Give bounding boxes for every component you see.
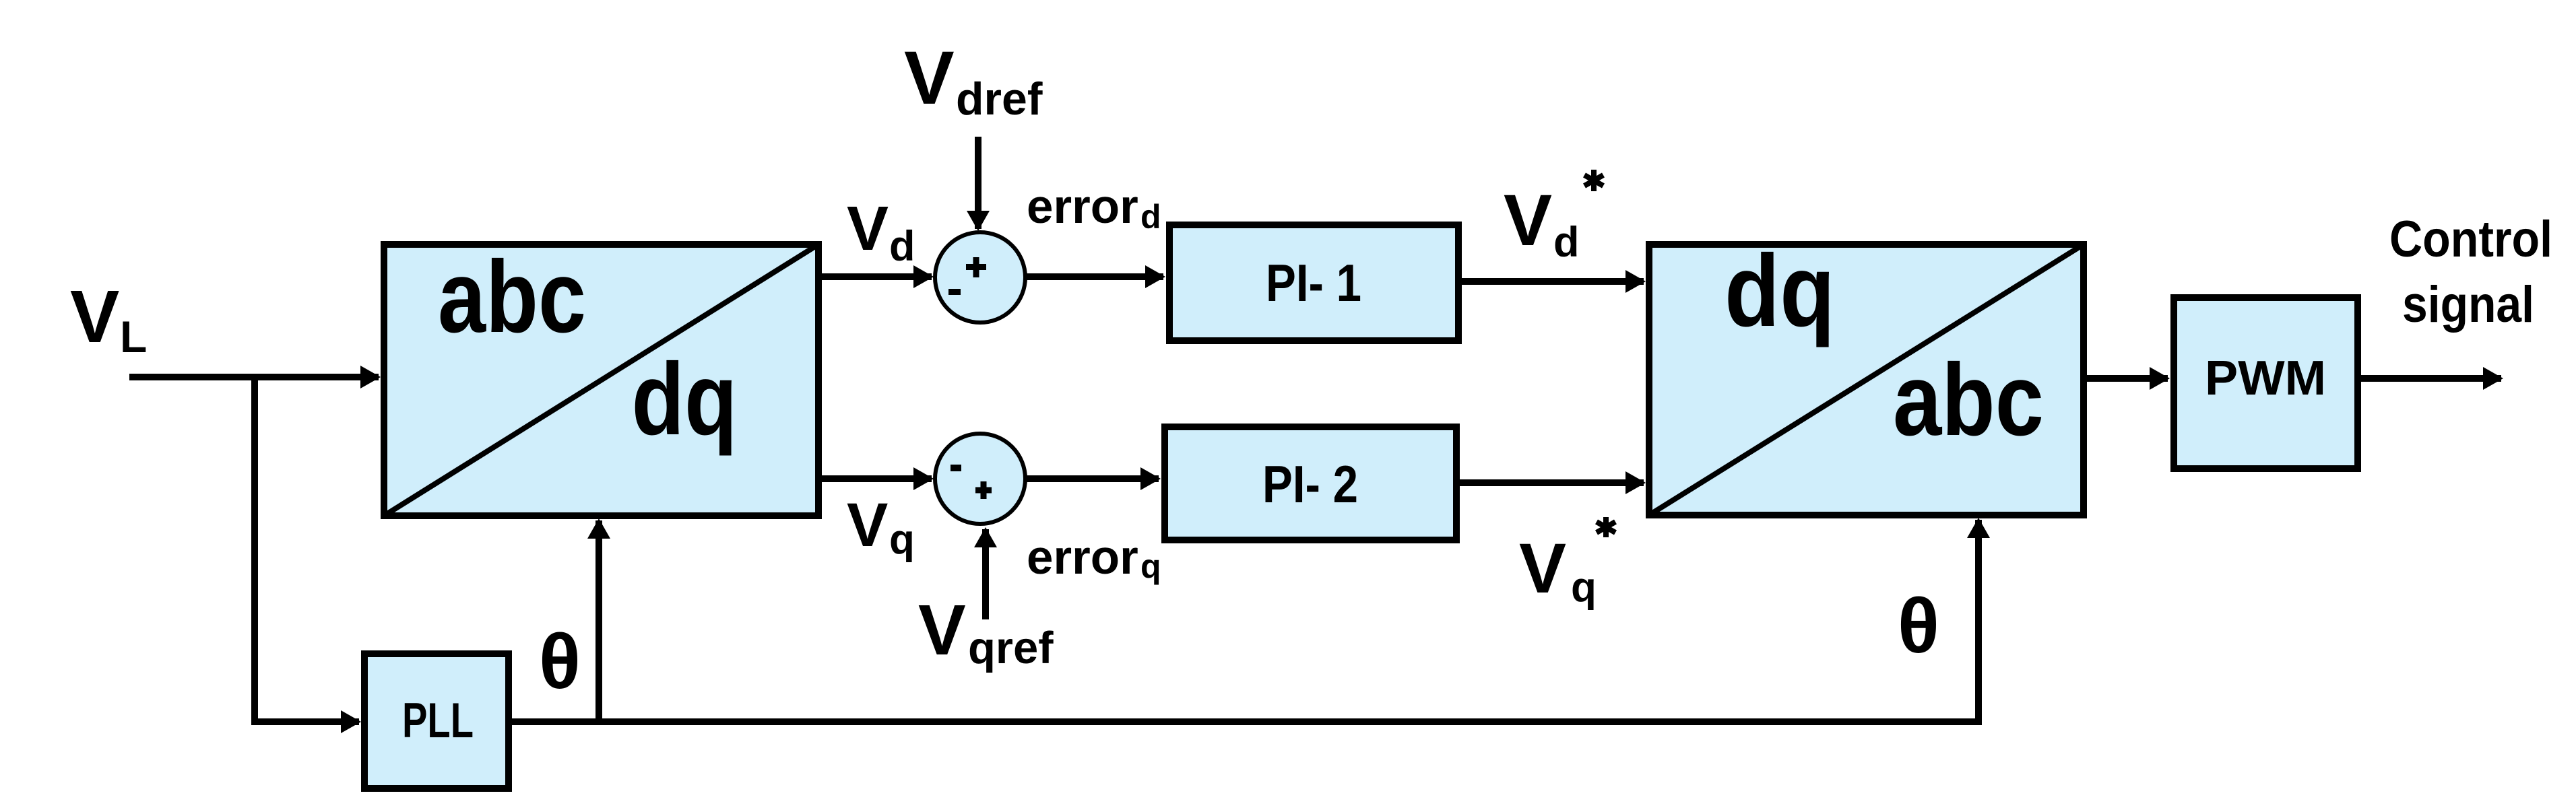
svg-text:V: V: [847, 491, 888, 560]
label Vq star: [1519, 517, 1615, 611]
svg-text:abc: abc: [438, 240, 586, 354]
svg-text:dref: dref: [956, 73, 1043, 125]
svg-text:V: V: [904, 36, 955, 120]
node A branch to PLL: [255, 377, 359, 722]
wire Vd to summer 1: [822, 273, 932, 280]
summer 2: [935, 434, 1025, 524]
wire theta up to abc-dq block: [595, 520, 602, 722]
svg-text:PI- 1: PI- 1: [1266, 253, 1361, 312]
wire Vqref up to summer 2: [982, 529, 989, 619]
wire errord to PI-1: [1025, 273, 1163, 280]
svg-text:error: error: [1027, 180, 1138, 234]
label Control signal: [2389, 211, 2552, 333]
svg-text:q: q: [1571, 564, 1597, 611]
svg-text:error: error: [1027, 531, 1138, 584]
svg-text:L: L: [120, 312, 147, 362]
svg-text:V: V: [918, 590, 966, 670]
svg-text:abc: abc: [1893, 343, 2044, 457]
wire Vdref down to summer 1: [975, 137, 981, 229]
svg-text:V: V: [1504, 179, 1552, 261]
block abc/dq transform: [384, 240, 818, 516]
block dq/abc transform: [1649, 234, 2084, 515]
label errord: [1027, 180, 1161, 236]
svg-text:PI- 2: PI- 2: [1262, 454, 1358, 514]
svg-text:d: d: [889, 223, 915, 270]
svg-text:V: V: [70, 275, 119, 358]
label Vq: [847, 491, 915, 563]
summer 1: [935, 232, 1025, 323]
wire Vq* to dq-abc block: [1458, 479, 1644, 486]
svg-text:signal: signal: [2402, 276, 2534, 333]
label Vdref: [904, 36, 1043, 125]
svg-text:V: V: [1519, 529, 1566, 608]
wire PWM output control signal: [2360, 375, 2501, 382]
label Vd: [847, 193, 915, 270]
block PI-2: [1165, 427, 1456, 540]
wire dq-abc to PWM: [2086, 375, 2168, 382]
label Vd star: [1504, 170, 1603, 266]
svg-text:PWM: PWM: [2205, 351, 2326, 405]
svg-text:d: d: [1553, 219, 1579, 266]
block PLL: [364, 654, 509, 788]
wire Vq to summer 2: [822, 475, 932, 482]
wire PLL output theta feedback: [511, 520, 1978, 722]
wire V_L input: [129, 374, 379, 380]
svg-text:q: q: [889, 516, 915, 563]
svg-text:dq: dq: [1725, 234, 1835, 348]
label errorq: [1027, 531, 1161, 585]
label VL: [70, 275, 147, 362]
svg-text:θ: θ: [539, 619, 581, 705]
wire errorq to PI-2: [1025, 475, 1159, 482]
svg-text:PLL: PLL: [402, 693, 474, 748]
block PI-1: [1169, 225, 1458, 341]
svg-text:V: V: [847, 193, 889, 263]
svg-text:dq: dq: [632, 342, 738, 456]
label Vqref: [918, 590, 1054, 673]
svg-text:Control: Control: [2389, 211, 2552, 268]
svg-text:d: d: [1140, 198, 1161, 236]
svg-text:qref: qref: [968, 623, 1054, 673]
svg-text:θ: θ: [1898, 583, 1939, 669]
block PWM: [2174, 298, 2358, 469]
svg-text:q: q: [1140, 547, 1161, 585]
wire Vd* to dq-abc block: [1460, 278, 1644, 285]
